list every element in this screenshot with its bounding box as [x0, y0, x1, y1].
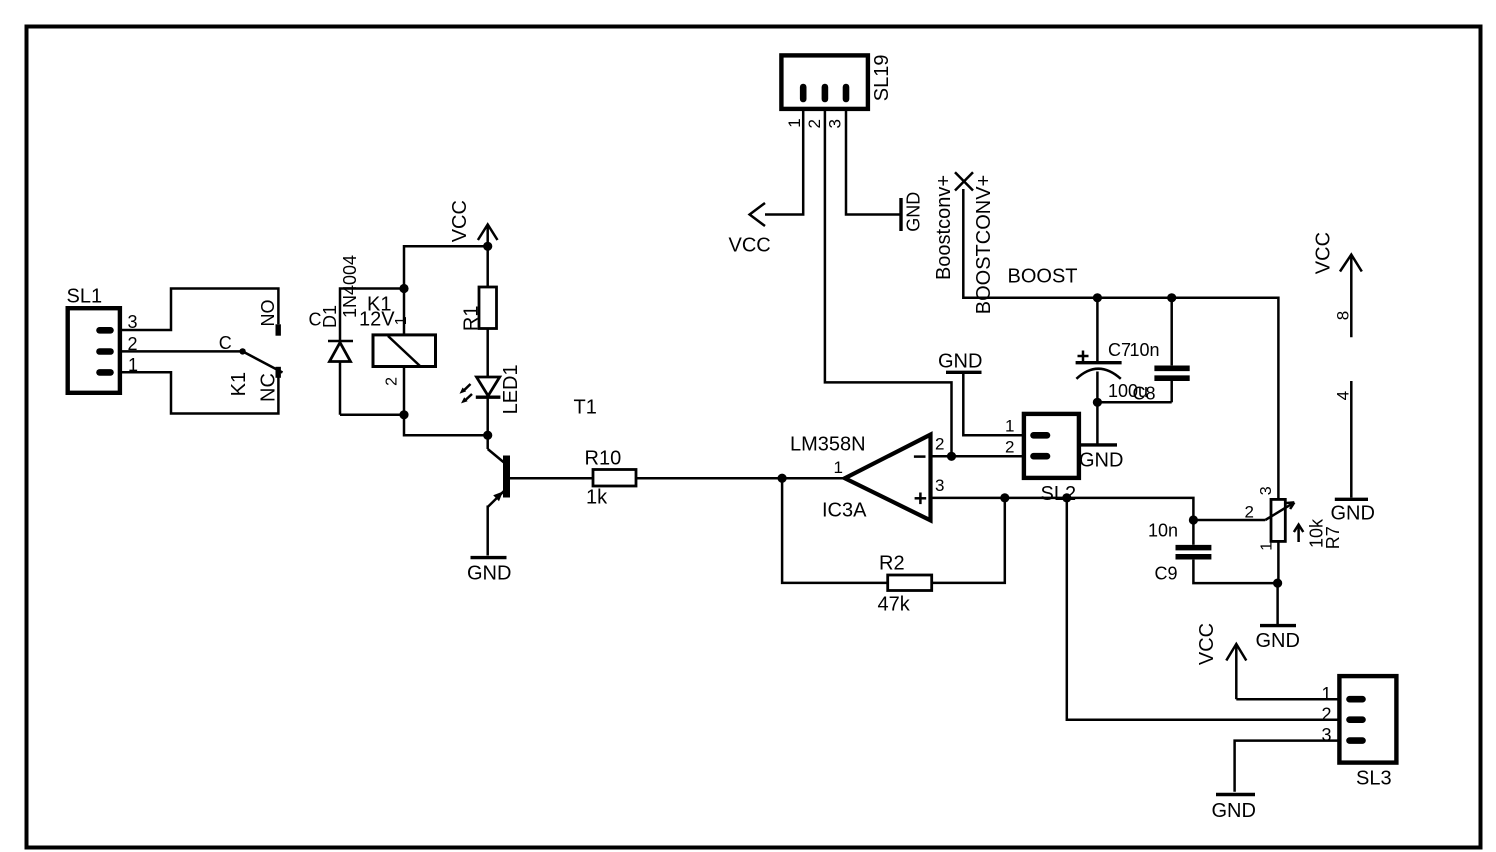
svg-text:GND: GND [938, 351, 982, 373]
svg-text:VCC: VCC [1312, 232, 1334, 274]
connector SL2 [1005, 414, 1079, 505]
svg-text:GND: GND [467, 562, 511, 584]
wire relay top to VCC rail [404, 246, 488, 288]
svg-text:8: 8 [1334, 311, 1353, 320]
LED LED1 [460, 364, 523, 435]
wire diode/coil top rail [340, 289, 404, 415]
wire SL1 pin2 to contact pole C [120, 350, 243, 353]
svg-text:R7: R7 [1323, 526, 1343, 549]
wire op-amp pin3 net [931, 498, 1266, 520]
svg-text:C9: C9 [1155, 564, 1178, 584]
svg-text:1: 1 [393, 316, 410, 325]
svg-text:VCC: VCC [729, 235, 771, 257]
svg-text:12V: 12V [359, 309, 395, 331]
svg-text:2: 2 [384, 377, 401, 386]
ground below SL3 [1212, 795, 1256, 823]
resistor R2 [878, 553, 932, 616]
wire SL19 pin2 to op-amp pin2 [825, 108, 952, 456]
diode D1 [309, 255, 361, 362]
potentiometer R7 [1245, 486, 1344, 583]
svg-text:1k: 1k [586, 487, 608, 509]
capacitor C8 (ceramic) [1130, 298, 1190, 404]
wire op-amp pin4 to GND [1334, 381, 1353, 498]
svg-text:GND: GND [904, 192, 924, 232]
svg-text:3: 3 [1322, 725, 1332, 745]
power VCC for SL3 pin1 [1196, 623, 1246, 699]
svg-text:1: 1 [834, 458, 843, 477]
node pin3/SL3 riser [1062, 493, 1071, 502]
svg-text:4: 4 [1334, 391, 1353, 400]
svg-text:1: 1 [1259, 542, 1276, 551]
svg-text:SL2: SL2 [1041, 483, 1077, 505]
svg-text:SL1: SL1 [67, 286, 103, 308]
wire C8 bottom to C7 bottom [1097, 401, 1171, 404]
node VCC/R1 [483, 242, 492, 251]
wire SL3 pin3 to GND [1235, 741, 1340, 792]
svg-text:1N4004: 1N4004 [340, 255, 360, 318]
svg-text:C8: C8 [1133, 384, 1156, 404]
op-amp IC3A [790, 434, 944, 522]
svg-text:2: 2 [805, 119, 824, 128]
svg-text:1: 1 [1005, 417, 1014, 436]
svg-text:47k: 47k [878, 594, 911, 616]
wire feedback down to R2 [782, 478, 888, 583]
ground right of SL19 (rotated) [901, 192, 924, 232]
power VCC left arrow [729, 203, 771, 257]
connector SL3 [1322, 676, 1397, 789]
svg-text:2: 2 [1245, 503, 1254, 522]
capacitor C9 (ceramic) [1148, 520, 1278, 584]
svg-text:10n: 10n [1130, 340, 1160, 360]
svg-text:1: 1 [785, 118, 804, 127]
svg-text:3: 3 [1258, 486, 1275, 495]
ground above op-amp (flipped) [938, 351, 982, 373]
wire SL2 pin1 to GND [963, 374, 1024, 435]
svg-text:VCC: VCC [449, 200, 471, 242]
svg-text:2: 2 [1322, 704, 1332, 724]
transistor T1 [488, 397, 597, 556]
svg-text:SL3: SL3 [1356, 768, 1392, 790]
resistor R1 [461, 246, 497, 377]
svg-text:IC3A: IC3A [822, 500, 867, 522]
wire base to R10 [510, 477, 593, 480]
svg-text:Boostconv+: Boostconv+ [933, 175, 955, 280]
svg-text:3: 3 [825, 119, 844, 128]
wire op-amp pin2 to SL2 pin2 [931, 455, 1024, 458]
relay contact NO terminal [276, 324, 281, 335]
node pin3/R2 [1000, 493, 1009, 502]
wire SL1 pin3 to relay NO [120, 289, 279, 331]
node collector [483, 431, 492, 440]
svg-text:R2: R2 [879, 553, 905, 575]
svg-text:LED1: LED1 [500, 364, 522, 414]
svg-text:R10: R10 [585, 448, 622, 470]
wire R10 to op-amp input [636, 477, 845, 480]
wire SL1 pin1 to relay NC [120, 372, 279, 413]
svg-text:3: 3 [935, 476, 944, 495]
svg-text:BOOST: BOOST [1008, 266, 1078, 288]
svg-text:NO: NO [258, 300, 278, 327]
svg-text:1: 1 [1322, 684, 1332, 704]
ground op-amp pin4 [1331, 499, 1375, 524]
node feedback tap [778, 474, 787, 483]
ground below T1 [467, 558, 511, 585]
node BOOST/C8 [1167, 293, 1176, 302]
node pin2 net [947, 452, 956, 461]
connector SL19 [781, 55, 893, 129]
node pot/C9 [1189, 515, 1198, 524]
resistor R10 [585, 448, 637, 509]
wire pin3 net to SL3 pin2 [1067, 498, 1340, 720]
node pot pin1/C9/GND [1273, 579, 1282, 588]
node relay top [399, 284, 408, 293]
svg-text:D1: D1 [320, 305, 340, 328]
node relay bottom [399, 410, 408, 419]
ground below pot [1256, 583, 1300, 652]
wire VCC to SL3 pin1 [1236, 698, 1339, 701]
svg-text:10n: 10n [1148, 521, 1178, 541]
svg-text:LM358N: LM358N [790, 434, 866, 456]
node BOOST/C7 [1093, 293, 1102, 302]
node C7/C8 gnd [1093, 398, 1102, 407]
svg-text:GND: GND [1079, 450, 1123, 472]
wire diode bottom rail [340, 414, 404, 417]
svg-text:VCC: VCC [1196, 623, 1218, 665]
svg-text:GND: GND [1331, 503, 1375, 525]
svg-text:2: 2 [1005, 437, 1014, 456]
svg-text:BOOSTCONV+: BOOSTCONV+ [973, 175, 995, 314]
net cross BOOSTCONV+ [933, 172, 995, 314]
capacitor C7 (electrolytic) [1076, 298, 1148, 403]
connector SL1 [67, 286, 139, 393]
svg-text:GND: GND [1212, 800, 1256, 822]
svg-text:C7: C7 [1108, 340, 1131, 360]
svg-text:2: 2 [935, 435, 944, 454]
svg-text:NC: NC [258, 373, 280, 402]
wire BOOST rail [963, 189, 1278, 499]
relay coil K1 [359, 289, 436, 415]
relay switch arm [243, 351, 283, 372]
wire SL19 pin1 to VCC [765, 108, 803, 215]
wire SL19 pin3 to GND [846, 108, 900, 215]
power VCC op-amp pin8 [1312, 232, 1361, 337]
ground below C7 [1079, 402, 1123, 471]
wire relay bottom to collector node [404, 415, 488, 435]
svg-text:SL19: SL19 [871, 55, 893, 102]
relay contact NC terminal [276, 367, 281, 378]
node C pole dot [239, 348, 245, 354]
svg-text:T1: T1 [574, 397, 597, 419]
power VCC above R1 [449, 200, 497, 246]
svg-text:C: C [219, 333, 232, 353]
svg-text:GND: GND [1256, 630, 1300, 652]
svg-text:R1: R1 [461, 306, 483, 332]
svg-text:K1: K1 [228, 372, 250, 396]
wire R2 to pin3 net riser [932, 498, 1005, 583]
